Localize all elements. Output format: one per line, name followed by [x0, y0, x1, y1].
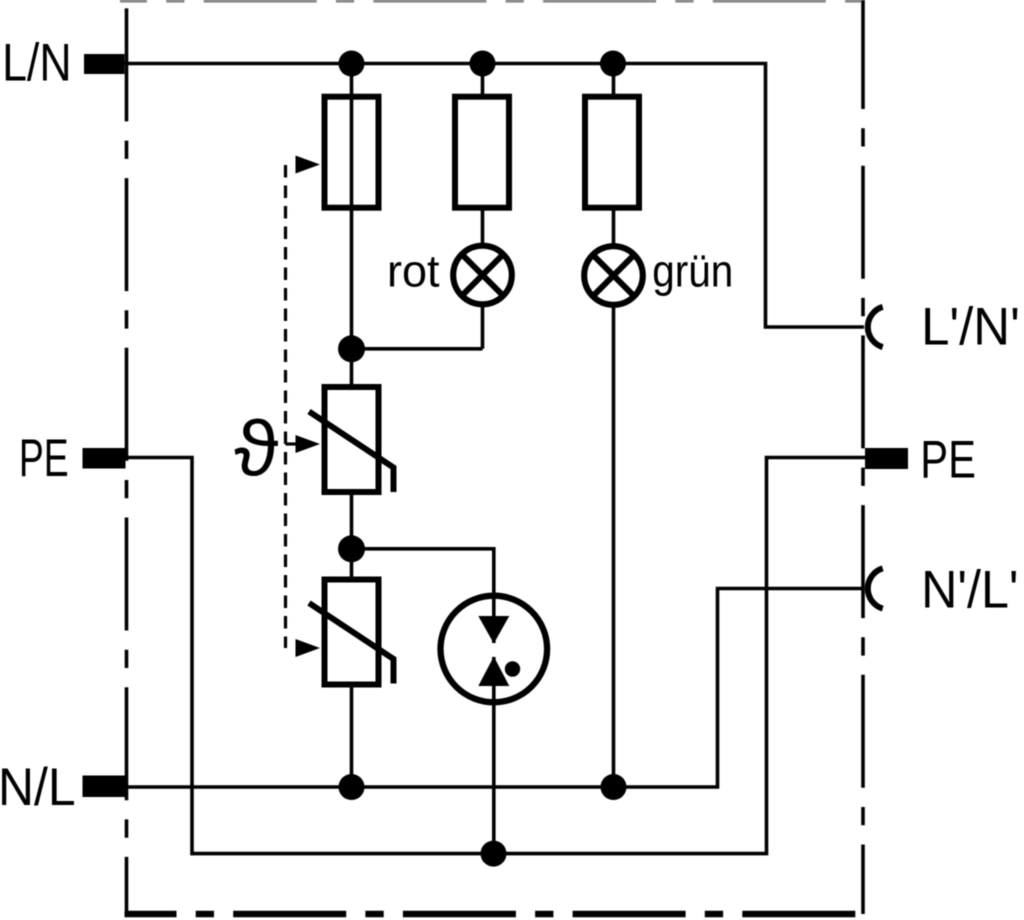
- svg-text:L/N: L/N: [2, 34, 72, 93]
- svg-text:N'/L': N'/L': [921, 561, 1018, 620]
- thermal linkage dashed line: [284, 165, 287, 648]
- node B (L/N x branch2): [470, 51, 496, 77]
- svg-text:grün: grün: [652, 245, 733, 296]
- wire branch 3 vertical (resistor + green lamp down to N/L): [612, 64, 616, 788]
- thermal arrow at varistor RV2: [296, 639, 321, 657]
- terminal N/L (left, black pad): [83, 776, 126, 798]
- plug connector L'/N' (half-circle): [868, 307, 883, 347]
- device outline right border (dash-dot): [861, 0, 865, 914]
- wire PE net (left PE down, bottom run, up to right PE): [125, 458, 866, 854]
- resistor R1 (red lamp branch): [455, 97, 509, 208]
- thermal arrow at fuse: [296, 156, 321, 174]
- svg-text:PE: PE: [920, 431, 976, 490]
- svg-text:PE: PE: [19, 429, 69, 488]
- terminal L/N (left, black pad): [84, 54, 125, 74]
- resistor R2 (green lamp branch): [585, 97, 639, 208]
- device outline bottom border (dash-dot): [125, 911, 867, 918]
- spark gap / GDT (circle, two arrows, gas dot): [441, 596, 548, 703]
- device outline left border (dash-dot): [125, 0, 129, 914]
- wire N/L bus (bottom horizontal + up to N'/L'): [125, 589, 864, 788]
- node G (branch3 x N/L bus): [601, 774, 627, 800]
- terminal PE' (right, black pad): [865, 448, 908, 469]
- node F (branch1 x N/L bus): [339, 774, 365, 800]
- wire branch 2 vertical (resistor + red lamp): [481, 64, 485, 349]
- svg-text:rot: rot: [387, 246, 440, 297]
- lamp H2 gruen (circle with X): [584, 246, 643, 305]
- node E (branch1 x spark-gap link): [338, 535, 365, 562]
- terminal PE (left, black pad): [83, 448, 126, 469]
- thermal arrow at varistor RV1: [296, 435, 321, 453]
- plug connector N'/L' (half-circle): [868, 568, 883, 608]
- varistor RV2: [309, 580, 394, 685]
- varistor RV1: [309, 387, 394, 492]
- svg-text:N/L: N/L: [0, 758, 76, 817]
- svg-text:ϑ: ϑ: [234, 406, 278, 492]
- wire branch 1 vertical (through fuse, between varistors): [350, 64, 354, 788]
- node H (spark gap x PE run): [481, 841, 507, 867]
- node C (L/N x branch3): [600, 51, 626, 77]
- node A (L/N x branch1): [339, 51, 365, 77]
- wire spark-gap branch (from node B to gap, down to PE run): [352, 549, 494, 854]
- thermal linkage stub to varistor RV1 arrow: [286, 442, 298, 445]
- node D (branch1 x lamp-rot link): [338, 335, 365, 362]
- fuse / thermal disconnect F1 (rect with through-line): [325, 97, 379, 208]
- device outline top border (dash-dot, cropped): [120, 0, 866, 3]
- lamp H1 rot (circle with X): [453, 246, 512, 305]
- wire link lamp rot to branch 1: [352, 347, 483, 351]
- wire L/N bus (top horizontal + right drop to L'/N'): [124, 64, 864, 328]
- svg-text:L'/N': L'/N': [921, 298, 1020, 357]
